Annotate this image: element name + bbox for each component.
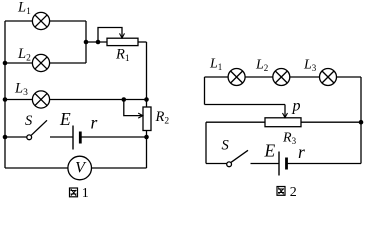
battery E (fig1): long plate bbox=[72, 126, 74, 150]
svg-text:L2: L2 bbox=[255, 58, 268, 74]
wire voltmeter row left bbox=[5, 167, 68, 169]
wire battery to right vertical bbox=[80, 136, 146, 138]
svg-text:r: r bbox=[91, 113, 98, 133]
lamp L1 (fig1) bbox=[32, 12, 49, 29]
svg-text:1: 1 bbox=[82, 186, 89, 199]
voltmeter V bbox=[68, 156, 92, 180]
junction dot battery row / right vertical bbox=[144, 135, 149, 140]
wire from parallel block to R1 bbox=[86, 41, 107, 43]
caption 图1 glyph box bbox=[70, 188, 78, 197]
wire top row right (fig2) bbox=[337, 76, 362, 78]
rheostat R3 body bbox=[265, 118, 301, 127]
switch S (fig2) bbox=[227, 150, 248, 166]
junction dot at left bus / L3 bbox=[3, 97, 8, 102]
lamp L1 (fig2) bbox=[228, 69, 245, 86]
svg-text:R2: R2 bbox=[155, 109, 170, 127]
wire voltmeter row right bbox=[92, 167, 147, 169]
junction dot L3 row / right vertical bbox=[144, 97, 149, 102]
slider arrow of R2 bbox=[124, 100, 143, 119]
lamp L2 (fig2) bbox=[273, 69, 290, 86]
svg-text:E: E bbox=[59, 109, 71, 129]
wire L2 row right bbox=[50, 62, 86, 64]
junction dot parallel block output bbox=[84, 40, 89, 45]
svg-text:L3: L3 bbox=[303, 58, 317, 74]
lamp L3 (fig2) bbox=[320, 69, 337, 86]
svg-text:L1: L1 bbox=[17, 0, 31, 17]
wire R1 to right vertical bbox=[138, 41, 147, 43]
svg-text:E: E bbox=[264, 141, 276, 161]
svg-text:R1: R1 bbox=[115, 47, 130, 65]
junction dot at left bus / battery row bbox=[3, 135, 8, 140]
wire switch to battery bbox=[50, 136, 73, 138]
wire L1 row right bbox=[50, 20, 86, 22]
wire battery to right vertical (fig2) bbox=[287, 163, 362, 165]
junction dot R2 slider tap bbox=[122, 97, 127, 102]
wire switch to battery (fig2) bbox=[251, 163, 280, 165]
lamp L2 (fig1) bbox=[32, 54, 49, 71]
wire battery row to switch (fig2) bbox=[206, 163, 227, 165]
wire left vertical upper (fig2) bbox=[204, 77, 206, 105]
wire R3 left terminal bbox=[206, 121, 265, 123]
junction dot R3 / right vertical bbox=[359, 120, 364, 125]
wire R2 bottom to battery row bbox=[146, 131, 148, 138]
svg-text:r: r bbox=[298, 142, 305, 162]
lamp L3 (fig1) bbox=[32, 91, 49, 108]
wire L2 row left bbox=[5, 62, 32, 64]
svg-text:R3: R3 bbox=[282, 131, 297, 147]
battery E (fig2): long plate bbox=[278, 152, 280, 176]
wire right vertical lower (fig1) bbox=[146, 137, 148, 168]
svg-text:L3: L3 bbox=[14, 81, 28, 99]
wire L3 row right bbox=[50, 99, 147, 101]
svg-text:L2: L2 bbox=[17, 46, 31, 64]
wire top row left (fig2) bbox=[205, 76, 229, 78]
svg-text:L1: L1 bbox=[209, 57, 222, 73]
wire left vertical lower (fig2) bbox=[205, 122, 207, 163]
svg-text:p: p bbox=[292, 98, 301, 115]
wire right vertical (fig2) bbox=[360, 77, 362, 164]
switch S (fig1) bbox=[27, 120, 47, 139]
junction dot at left bus / L2 bbox=[3, 61, 8, 66]
wire L1 row left bbox=[5, 20, 32, 22]
wire R3 right terminal bbox=[301, 121, 361, 123]
svg-text:S: S bbox=[25, 113, 33, 129]
wire L3 row left bbox=[5, 99, 32, 101]
wire between L2 and L3 (fig2) bbox=[290, 76, 320, 78]
wire right vertical upper (fig1) bbox=[146, 42, 148, 107]
junction dot R1 slider tap bbox=[96, 40, 101, 45]
svg-text:S: S bbox=[222, 138, 230, 154]
wire left bus (fig1) bbox=[4, 21, 6, 168]
wire battery row to switch bbox=[5, 136, 27, 138]
rheostat R1 body bbox=[107, 38, 138, 45]
battery E (fig2): short thick plate bbox=[285, 158, 288, 170]
caption 图2 glyph box bbox=[277, 187, 285, 196]
wire between L1 and L2 (fig2) bbox=[245, 76, 273, 78]
rheostat R2 body bbox=[143, 107, 151, 131]
slider arrow of R1 bbox=[98, 28, 125, 43]
svg-text:2: 2 bbox=[290, 185, 297, 199]
wire vertical right of L1/L2 parallel bbox=[85, 21, 87, 63]
wire slider feed line (fig2) bbox=[205, 104, 286, 106]
svg-text:V: V bbox=[75, 160, 87, 177]
battery E (fig1): short thick plate bbox=[79, 132, 82, 144]
slider arrow of R3 bbox=[283, 105, 288, 118]
